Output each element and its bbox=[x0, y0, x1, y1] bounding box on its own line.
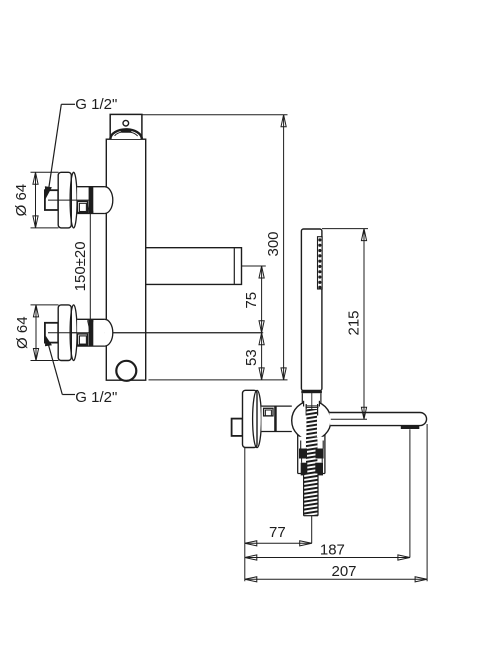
svg-text:77: 77 bbox=[269, 524, 286, 541]
dim lower O64 bbox=[14, 305, 59, 361]
temperature knob bbox=[116, 361, 136, 381]
hose coil inside ball bbox=[306, 409, 317, 437]
svg-text:G 1/2": G 1/2" bbox=[75, 96, 117, 113]
handle neck into ball bbox=[301, 393, 303, 403]
dim 150+-20 bbox=[72, 200, 93, 333]
flange ellipse bbox=[70, 305, 77, 361]
coil through nut bbox=[306, 437, 317, 474]
207 witness bbox=[426, 424, 428, 581]
set screw bbox=[77, 334, 87, 345]
svg-text:215: 215 bbox=[346, 310, 363, 335]
dim 77/187/207 bbox=[245, 424, 427, 582]
cartridge dome cap bbox=[110, 129, 141, 139]
aerator slot bbox=[401, 425, 420, 429]
arm bbox=[261, 406, 290, 431]
207 bbox=[245, 578, 427, 580]
nipple bbox=[45, 323, 58, 343]
dim 75 / 53 shared line bbox=[242, 266, 266, 380]
hex edges bbox=[300, 441, 302, 449]
lower union centerline / 75-53 witness line bbox=[48, 332, 262, 334]
spout (middle, from valve body) bbox=[144, 248, 241, 285]
187 witness bbox=[409, 429, 411, 557]
rounded end into body bbox=[105, 187, 113, 214]
flange ellipse bbox=[70, 172, 77, 228]
dim upper O64 bbox=[13, 172, 59, 228]
lower wall union bbox=[45, 305, 263, 361]
svg-text:187: 187 bbox=[320, 542, 345, 559]
flange disc bbox=[58, 172, 71, 228]
svg-text:Ø 64: Ø 64 bbox=[14, 316, 31, 349]
nipple bbox=[45, 190, 58, 210]
spout arm bbox=[329, 413, 426, 430]
svg-text:75: 75 bbox=[243, 292, 260, 309]
hose below nut bbox=[304, 474, 318, 516]
svg-text:300: 300 bbox=[265, 231, 282, 256]
connector mid section bbox=[77, 187, 105, 214]
nozzle strip bbox=[318, 237, 323, 289]
hand shower wand bbox=[301, 229, 322, 393]
locknut black bar bbox=[89, 319, 94, 346]
rubber rings bbox=[299, 449, 324, 476]
shower bracket ball bbox=[292, 401, 331, 440]
flange disc bbox=[58, 305, 71, 361]
svg-text:150±20: 150±20 bbox=[72, 241, 89, 291]
upper wall union bbox=[45, 172, 113, 228]
locknut black bar bbox=[89, 187, 94, 214]
ball top notch erase bbox=[304, 396, 320, 407]
svg-text:G 1/2": G 1/2" bbox=[75, 389, 117, 406]
187 bbox=[245, 557, 410, 559]
hose nut below ball bbox=[297, 435, 326, 474]
left witness bbox=[244, 448, 246, 582]
top mounting plate bbox=[110, 114, 142, 137]
set screw bbox=[77, 201, 87, 212]
77 bbox=[245, 542, 312, 544]
hex edges between rings bbox=[301, 458, 303, 462]
G 1/2 bottom label bbox=[45, 336, 117, 406]
connector mid section bbox=[77, 319, 105, 346]
rounded end into body bbox=[105, 319, 113, 346]
hose witness bbox=[311, 516, 313, 544]
G 1/2 top label bbox=[45, 96, 117, 199]
valve body bbox=[106, 139, 145, 380]
flange bbox=[243, 390, 258, 447]
centerline visible through union bbox=[48, 332, 89, 334]
black bar bbox=[274, 406, 277, 431]
screw bbox=[264, 408, 273, 416]
handle bottom joint bbox=[301, 391, 322, 394]
dim 215 bbox=[322, 229, 368, 420]
centerline bbox=[48, 199, 89, 201]
svg-text:53: 53 bbox=[243, 349, 260, 366]
bottom wall union (shower bracket) bbox=[232, 390, 292, 447]
nipple bbox=[232, 419, 243, 436]
svg-text:207: 207 bbox=[331, 563, 356, 580]
dim 300 bbox=[142, 115, 288, 380]
svg-text:Ø 64: Ø 64 bbox=[13, 184, 30, 217]
